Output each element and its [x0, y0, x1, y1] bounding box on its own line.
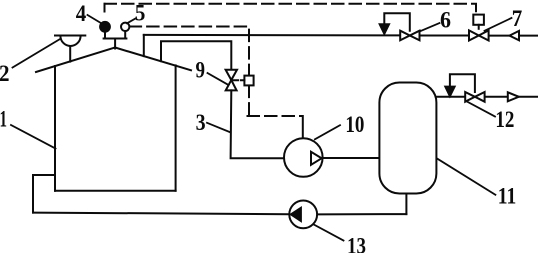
valve 6 actuator filled arrow: [380, 24, 389, 34]
stem square to valve 7: [478, 25, 480, 31]
valve 6 bowtie: [400, 31, 419, 41]
tank outlet stub horizontal: [33, 174, 55, 176]
pipe vessel 11 to right through valve 12: [436, 96, 538, 98]
leader line 1: [11, 125, 56, 149]
pump 10 circle: [284, 138, 323, 177]
svg-text:13: 13: [347, 233, 366, 253]
flow arrow on pipe after valve 12 (points right): [508, 92, 519, 101]
signal dashed line from sensor 4 to valve 7: [105, 4, 477, 15]
leader line 12: [467, 102, 495, 117]
valve 12 bowtie: [465, 92, 484, 102]
label 11: [498, 184, 517, 209]
label 12: [495, 107, 514, 132]
svg-text:6: 6: [440, 8, 451, 33]
svg-text:3: 3: [196, 110, 206, 135]
leader line 2: [13, 39, 60, 67]
svg-text:10: 10: [345, 112, 364, 137]
tank 1 left wall: [54, 66, 56, 191]
pump 13 filled impeller arrow (points left): [291, 208, 301, 221]
label 13: [347, 233, 366, 253]
signal dashed line square 9 down to pump 10: [248, 86, 303, 116]
leader line 11: [438, 159, 496, 195]
dashed link valve 9 to its square: [234, 79, 245, 81]
pipe 3 from valve 9 down to pump 10: [231, 90, 284, 158]
leader line 7: [485, 18, 512, 31]
signal dashed line from sensor 5 to valve 9 positioner: [130, 27, 249, 76]
top main pipe: [144, 34, 538, 37]
valve 12 actuator arm: [450, 74, 475, 92]
label 9: [196, 57, 206, 82]
valve 12 actuator filled arrow: [445, 87, 454, 97]
tank 1 right wall: [175, 65, 177, 190]
stem to pump 10: [302, 116, 304, 138]
mount bracket on roof peak: [104, 31, 127, 49]
svg-text:11: 11: [498, 184, 517, 209]
valve 7 bowtie: [469, 30, 489, 40]
pump 10 open impeller arrow: [311, 152, 322, 165]
label 7: [512, 6, 523, 31]
leader line 4: [88, 15, 101, 23]
label 2: [0, 61, 10, 86]
pipe from roof to valve 9: [161, 41, 231, 69]
svg-text:2: 2: [0, 61, 10, 86]
leader line 9: [208, 73, 229, 85]
pump 13 circle: [289, 201, 317, 229]
pipe riser from roof to top main pipe: [143, 35, 145, 56]
svg-text:4: 4: [76, 1, 87, 26]
pipe pump 10 to vessel 11: [323, 157, 380, 159]
tank 1 bottom: [55, 190, 176, 192]
label 10: [345, 112, 364, 137]
vent funnel 2 bowl: [60, 36, 80, 46]
sensor 5 open circle: [121, 23, 129, 31]
positioner square above valve 7: [473, 15, 484, 25]
svg-text:9: 9: [196, 57, 206, 82]
leader line 5: [127, 19, 136, 24]
label 6: [440, 8, 451, 33]
svg-text:1: 1: [0, 106, 7, 131]
label 3: [196, 110, 206, 135]
vessel 11 bottom outlet: [405, 194, 407, 215]
leader line 6: [420, 23, 440, 32]
vent funnel 2 stem: [69, 46, 71, 62]
svg-text:7: 7: [512, 6, 523, 31]
tank outlet stub vertical: [32, 175, 34, 213]
flow arrow on top pipe (points left): [510, 31, 520, 40]
svg-text:5: 5: [135, 0, 146, 25]
valve 9 vertical bowtie: [226, 70, 237, 91]
leader line 10: [315, 125, 340, 139]
vessel 11: [379, 83, 436, 194]
label 4: [76, 1, 87, 26]
sensor 4 filled circle: [100, 22, 110, 32]
svg-text:12: 12: [495, 107, 514, 132]
leader line 13: [314, 225, 344, 241]
vent funnel 2 top line: [55, 35, 85, 37]
valve 6 actuator arm: [384, 13, 410, 30]
leader line 3: [207, 123, 230, 133]
label 5: [135, 0, 146, 25]
bottom return pipe: [33, 213, 406, 215]
label 1: [0, 106, 7, 131]
positioner square at valve 9: [244, 76, 253, 86]
tank 1 roof right slope: [115, 48, 191, 71]
tank 1 roof left slope: [36, 48, 115, 73]
